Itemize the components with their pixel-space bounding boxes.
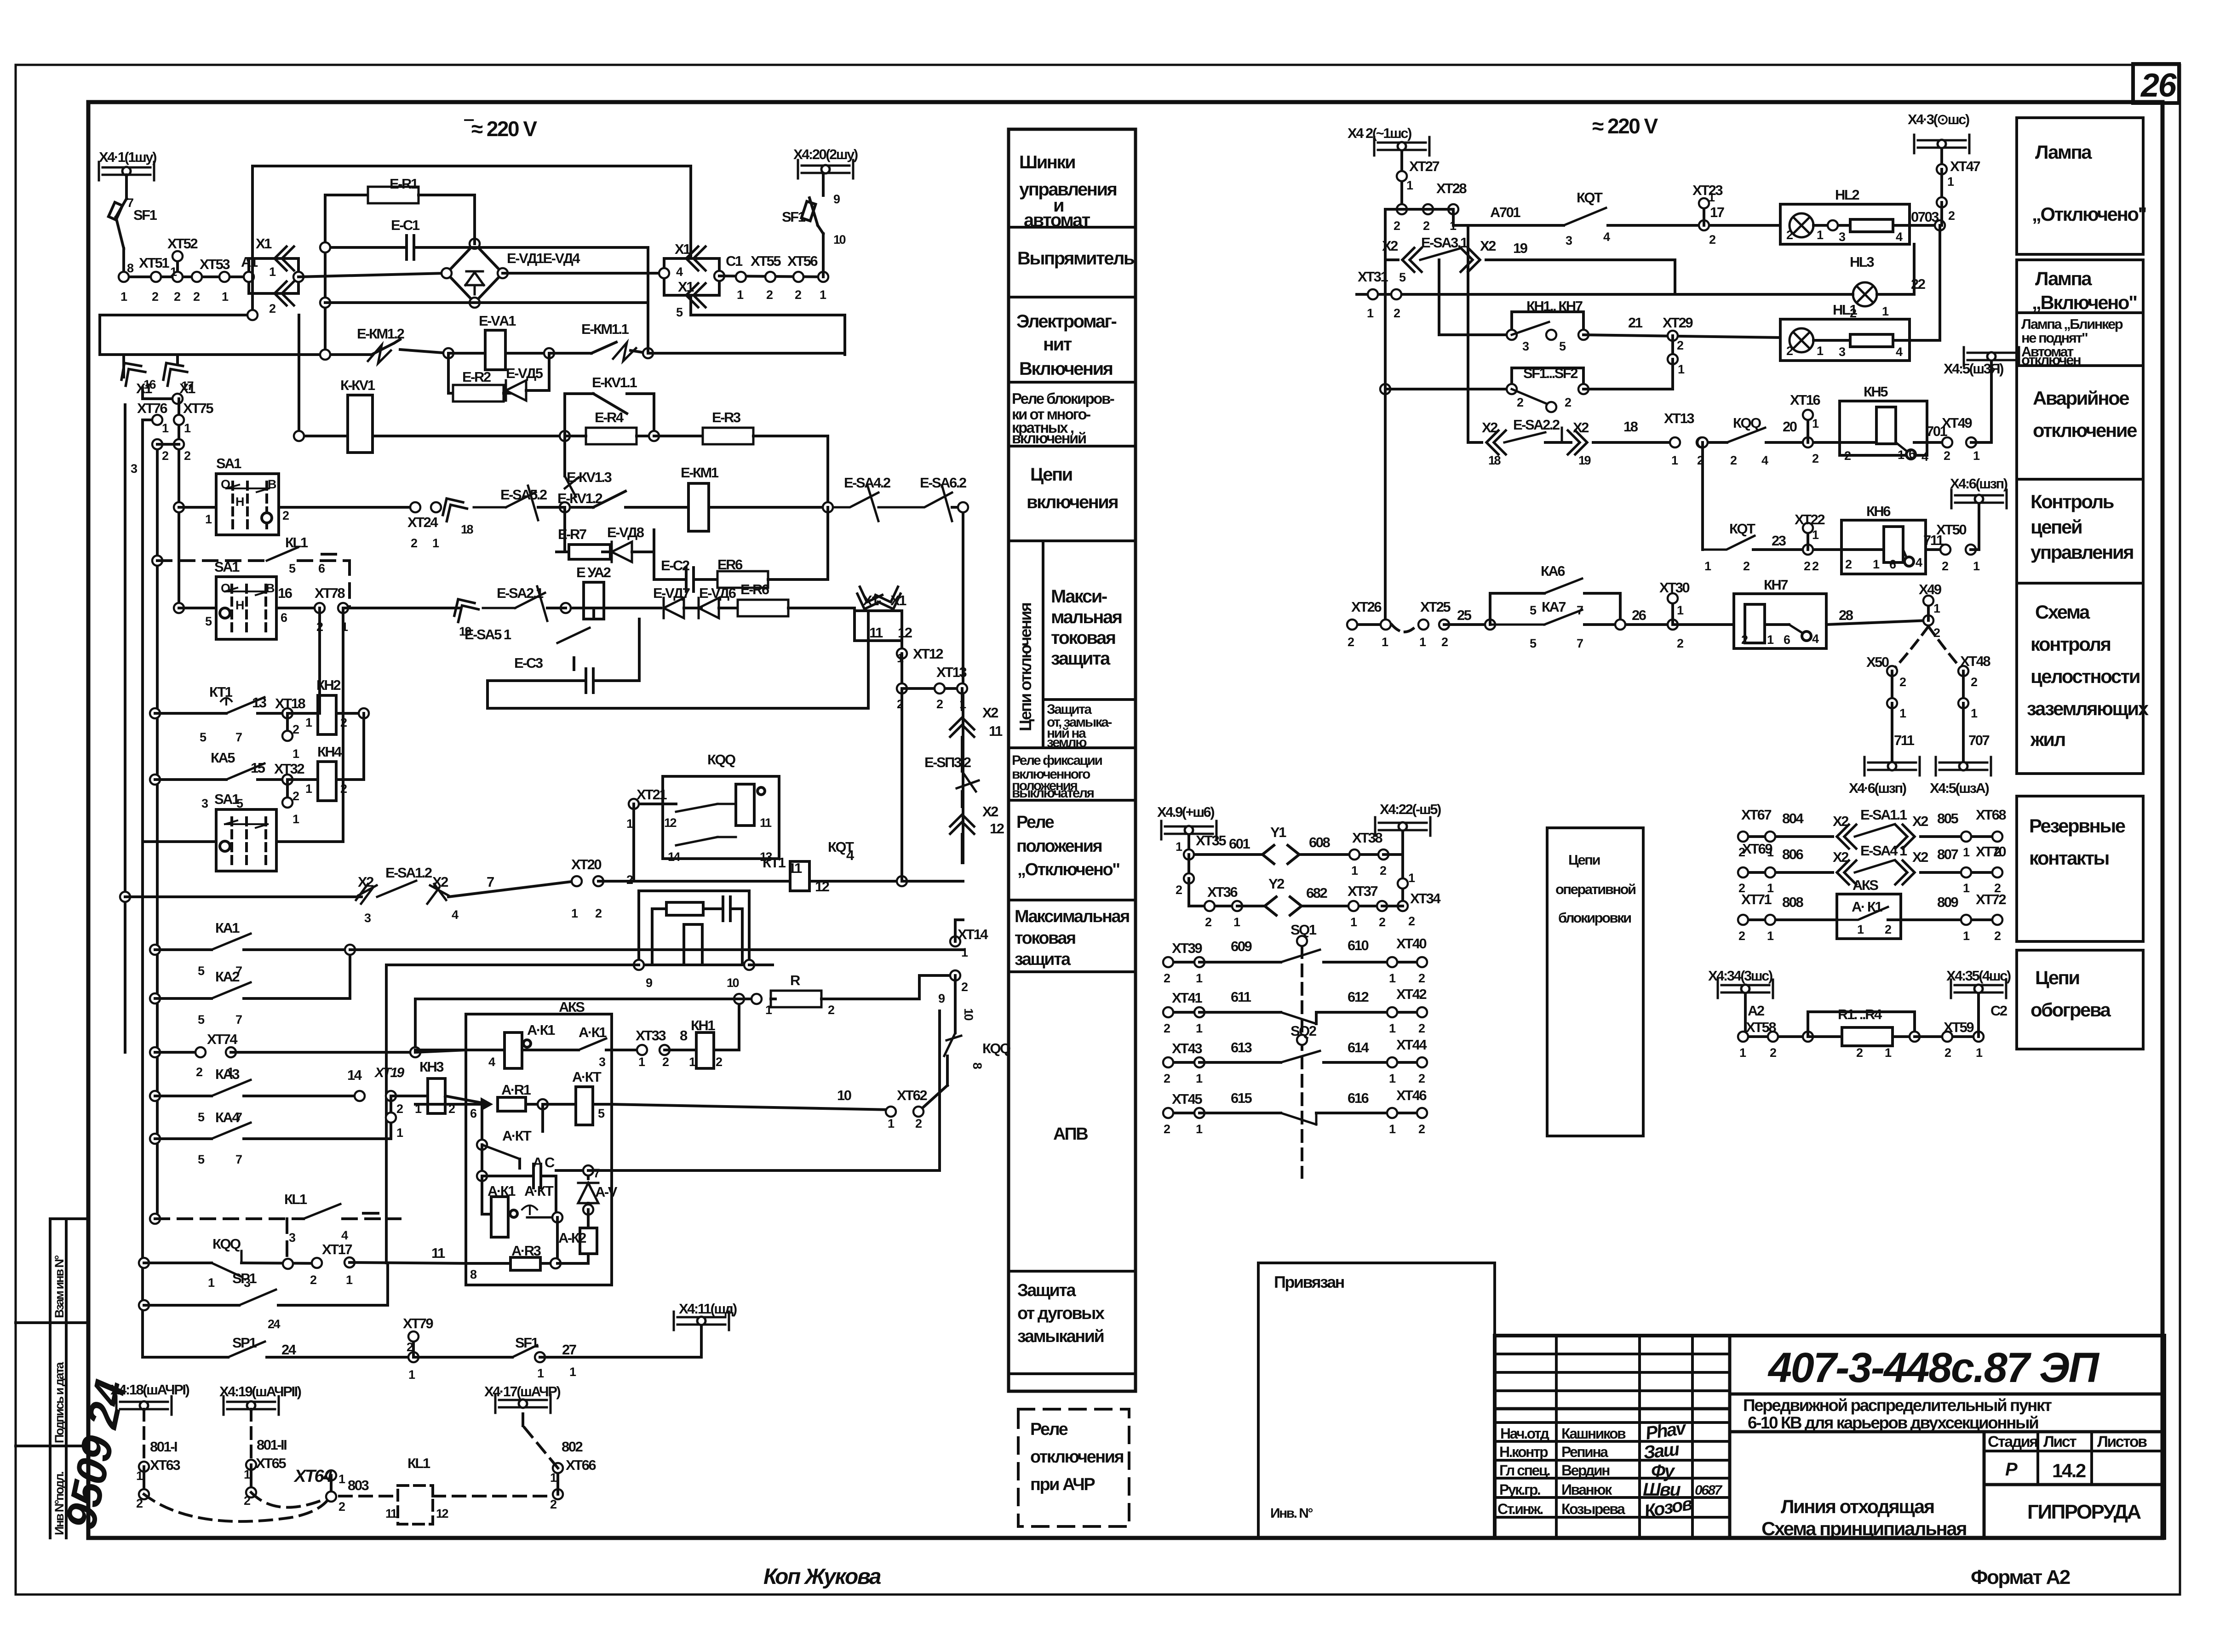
svg-text:ХТ72: ХТ72 xyxy=(1976,891,2006,907)
connector X1 pin 16 xyxy=(115,356,145,385)
svg-text:E-R3: E-R3 xyxy=(712,409,741,425)
svg-text:2: 2 xyxy=(1709,233,1715,247)
svg-text:Шинки: Шинки xyxy=(1019,152,1075,172)
KQT KH6 row y=1195 xyxy=(1701,442,1704,550)
svg-text:611: 611 xyxy=(1231,989,1251,1005)
svg-text:614: 614 xyxy=(1348,1039,1369,1055)
wire rail to X1 xyxy=(124,275,249,278)
svg-text:ХТ76: ХТ76 xyxy=(137,400,167,416)
node XT52 xyxy=(176,258,179,277)
svg-text:А·КТ: А·КТ xyxy=(572,1069,602,1085)
svg-text:Х49: Х49 xyxy=(1919,581,1942,597)
svg-text:2: 2 xyxy=(795,288,801,302)
svg-text:Формат А2: Формат А2 xyxy=(1971,1566,2070,1589)
relay KH6 box (wire 711) xyxy=(1841,520,1926,574)
svg-text:КQQ: КQQ xyxy=(1733,415,1761,431)
svg-text:ХТ56: ХТ56 xyxy=(787,253,818,269)
SP1 SF1 XT79 row xyxy=(143,1356,228,1359)
connector X4:5(sh3Ya) xyxy=(1964,347,2019,366)
svg-text:17: 17 xyxy=(1710,204,1724,220)
contact KT1 xyxy=(221,698,232,705)
bridge rectifier E-VD1..E-VD4 xyxy=(447,244,503,303)
svg-text:контакты: контакты xyxy=(2029,847,2109,869)
terminal XT48 (wire 707) xyxy=(1958,666,1968,676)
svg-text:‾≈ 220 V: ‾≈ 220 V xyxy=(464,117,537,141)
svg-text:Максимальная: Максимальная xyxy=(1015,907,1129,926)
svg-text:E-SА6.2: E-SА6.2 xyxy=(920,475,966,491)
A-K1 #2 coil + A-KT clock contact xyxy=(481,1176,483,1214)
svg-text:19: 19 xyxy=(459,625,472,638)
dashed to X50 / XT48 xyxy=(1892,626,1928,671)
svg-text:В: В xyxy=(266,581,275,595)
ladder labels xyxy=(110,380,855,1493)
svg-text:2: 2 xyxy=(407,1340,413,1354)
signature grid xyxy=(1495,1353,1730,1355)
breaker SF1 (right) xyxy=(822,234,825,277)
svg-text:жил: жил xyxy=(2030,728,2065,750)
resistor E-R7 + diode E-VD8 xyxy=(556,551,569,553)
contact A-KT xyxy=(482,1145,520,1159)
svg-text:Х50: Х50 xyxy=(1866,654,1889,670)
svg-text:„Отключено": „Отключено" xyxy=(1017,860,1119,879)
svg-text:2: 2 xyxy=(550,1497,556,1511)
contacts SF1...SF2 xyxy=(1512,389,1549,405)
svg-text:2: 2 xyxy=(1741,633,1748,647)
connector X4:6(shzp) lower xyxy=(1864,757,1920,775)
svg-text:ХТ40: ХТ40 xyxy=(1396,935,1426,952)
resistor R xyxy=(771,991,821,1007)
relay coil A-KT xyxy=(576,1087,593,1125)
resistor E-R4 xyxy=(586,428,637,444)
svg-text:ЕR6: ЕR6 xyxy=(717,556,743,573)
wire xyxy=(122,248,125,277)
relay coil KH2 xyxy=(318,695,336,734)
svg-text:ХТ67: ХТ67 xyxy=(1741,807,1771,823)
svg-text:7: 7 xyxy=(1577,603,1583,617)
terminal XT23 (wire 17) xyxy=(1699,220,1709,230)
svg-text:610: 610 xyxy=(1348,937,1368,953)
bottom dashed connectors xyxy=(116,1396,172,1467)
svg-text:ХТ68: ХТ68 xyxy=(1976,807,2006,823)
wire lower rectifier output xyxy=(325,301,447,304)
svg-text:Х4:19(шАЧРII): Х4:19(шАЧРII) xyxy=(219,1383,301,1400)
svg-text:Реле фиксации: Реле фиксации xyxy=(1012,753,1102,768)
svg-text:HL3: HL3 xyxy=(1850,254,1874,270)
svg-text:11: 11 xyxy=(788,860,802,876)
svg-text:2: 2 xyxy=(1394,219,1400,233)
svg-text:7: 7 xyxy=(593,1166,600,1180)
svg-text:21: 21 xyxy=(1628,315,1643,331)
svg-text:А2: А2 xyxy=(1748,1003,1764,1019)
svg-text:КТ1: КТ1 xyxy=(209,684,233,700)
contact KQQ (wire 9/8) xyxy=(944,1033,961,1056)
svg-text:2: 2 xyxy=(1565,396,1571,409)
terminal XT22 xyxy=(1803,545,1813,555)
svg-text:Н.контр: Н.контр xyxy=(1499,1444,1548,1460)
A-KT contact branch xyxy=(481,1104,483,1145)
relay KH5 box (wire 701) xyxy=(1840,401,1927,455)
svg-text:2: 2 xyxy=(396,1102,403,1116)
svg-text:2: 2 xyxy=(1994,881,2001,895)
svg-text:Х2: Х2 xyxy=(1573,419,1589,436)
contact E-SA3.2 xyxy=(957,771,979,792)
svg-text:801-II: 801-II xyxy=(257,1437,287,1453)
svg-text:ХТ36: ХТ36 xyxy=(1207,884,1238,900)
svg-text:С2: С2 xyxy=(1990,1003,2007,1019)
terminal XT25 (wire 25) xyxy=(1418,619,1428,630)
svg-text:„Отключено": „Отключено" xyxy=(2032,203,2146,225)
svg-text:КА7: КА7 xyxy=(1542,599,1566,615)
svg-text:заземляющих: заземляющих xyxy=(2027,698,2149,719)
svg-text:24: 24 xyxy=(281,1342,297,1358)
svg-text:автомат: автомат xyxy=(1024,210,1090,230)
svg-text:E-R2: E-R2 xyxy=(462,369,491,385)
contact E-KV1.2 xyxy=(565,506,593,509)
svg-text:ХТ34: ХТ34 xyxy=(1410,890,1441,906)
svg-text:14.2: 14.2 xyxy=(2052,1460,2086,1481)
svg-text:Ст.инж.: Ст.инж. xyxy=(1497,1501,1543,1517)
svg-text:ХТ20: ХТ20 xyxy=(571,856,601,872)
diodes E-VD7 E-VD6 + resistor E-R6 xyxy=(664,598,684,618)
svg-text:Листов: Листов xyxy=(2097,1433,2147,1451)
svg-text:26: 26 xyxy=(1632,607,1646,623)
A-C cap row xyxy=(482,1175,524,1177)
svg-text:804: 804 xyxy=(1782,810,1804,826)
svg-text:2: 2 xyxy=(193,290,200,304)
svg-text:АКS: АКS xyxy=(559,999,585,1015)
svg-text:А· К1: А· К1 xyxy=(1852,899,1882,915)
terminal XT44 (wire 614) xyxy=(1387,1057,1397,1067)
svg-text:13: 13 xyxy=(760,850,773,864)
svg-text:2: 2 xyxy=(1379,915,1385,929)
svg-text:ГИПРОРУДА: ГИПРОРУДА xyxy=(2027,1501,2141,1523)
svg-text:17: 17 xyxy=(181,379,194,393)
svg-text:ХТ24: ХТ24 xyxy=(407,514,438,530)
svg-text:11: 11 xyxy=(869,625,883,641)
interlock circuits box xyxy=(1547,828,1643,1136)
SA1 #1 xyxy=(174,502,184,512)
KA3 KH3 row xyxy=(150,1091,160,1101)
svg-text:801-I: 801-I xyxy=(150,1439,177,1455)
capacitor E-C2 + resistor ER6 xyxy=(654,578,674,581)
connector X4:18(shAChRI) xyxy=(116,1396,172,1415)
svg-text:Резервные: Резервные xyxy=(2029,815,2125,837)
svg-text:18: 18 xyxy=(1623,419,1638,435)
svg-text:24: 24 xyxy=(268,1317,281,1331)
relay coil E-KM1 xyxy=(688,483,709,531)
contact SP1 (row 1) xyxy=(239,1290,276,1305)
terminal XT26 xyxy=(1347,619,1357,630)
svg-text:включений: включений xyxy=(1012,430,1086,447)
svg-text:E-С2: E-С2 xyxy=(661,557,689,574)
svg-text:2: 2 xyxy=(828,1003,834,1017)
svg-text:2: 2 xyxy=(196,1065,202,1079)
svg-text:ХТ41: ХТ41 xyxy=(1172,990,1202,1006)
terminal XT24 xyxy=(410,502,420,512)
svg-text:609: 609 xyxy=(1231,938,1252,954)
svg-text:2: 2 xyxy=(595,906,602,920)
svg-text:11: 11 xyxy=(760,816,772,830)
svg-text:2: 2 xyxy=(1971,675,1977,689)
heater resistors R1...R4 xyxy=(1842,1027,1893,1046)
A-K1 coil + contact row y=2283 xyxy=(415,1049,505,1051)
node X50 (wire 711) xyxy=(1887,666,1897,676)
svg-text:2: 2 xyxy=(1885,923,1891,936)
terminal XT30 xyxy=(1668,619,1678,630)
svg-text:ХТ32: ХТ32 xyxy=(274,761,304,777)
svg-text:7: 7 xyxy=(235,964,242,978)
svg-text:КА6: КА6 xyxy=(1541,563,1565,579)
svg-text:Коп Жукова: Коп Жукова xyxy=(763,1565,881,1589)
svg-text:Цепи: Цепи xyxy=(1030,465,1072,485)
svg-text:E-КМ1.2: E-КМ1.2 xyxy=(357,326,404,342)
svg-text:АПВ: АПВ xyxy=(1053,1124,1088,1144)
svg-text:Е-SА2.1: Е-SА2.1 xyxy=(497,585,544,601)
svg-text:2: 2 xyxy=(1164,1122,1170,1136)
terminal XT36 (wire 682) xyxy=(1205,901,1215,911)
connector X4.9(+sh6) xyxy=(1161,821,1216,839)
connector X4:17(shAChR) xyxy=(495,1394,551,1413)
svg-text:806: 806 xyxy=(1782,846,1803,862)
svg-text:Лист: Лист xyxy=(2043,1433,2076,1451)
connector X2 pin 11 xyxy=(950,717,974,737)
svg-text:Х2: Х2 xyxy=(358,874,373,890)
svg-text:2: 2 xyxy=(1948,209,1955,223)
svg-text:2: 2 xyxy=(282,509,289,522)
svg-text:SF1...SF2: SF1...SF2 xyxy=(1523,365,1577,381)
svg-text:ХТ59: ХТ59 xyxy=(1944,1019,1974,1035)
resistor E-R1 xyxy=(325,194,368,196)
svg-text:27: 27 xyxy=(562,1342,576,1358)
terminal XT38 xyxy=(1349,849,1359,860)
electromagnet Y2 xyxy=(1265,897,1302,915)
relay coil KH4 xyxy=(318,762,336,801)
svg-text:16: 16 xyxy=(278,585,293,601)
resistor E-R2 + diode E-VD5 xyxy=(447,353,450,393)
terminal XT27 xyxy=(1397,171,1407,181)
terminal XT43 (wire 613) xyxy=(1163,1057,1173,1067)
svg-text:А·КТ: А·КТ xyxy=(524,1183,554,1199)
svg-text:КL1: КL1 xyxy=(284,1191,307,1207)
bus wire left xyxy=(141,420,144,1357)
contact KA7 (wire 26) xyxy=(1490,610,1582,625)
left sidebar boxes xyxy=(50,1217,88,1220)
svg-text:2: 2 xyxy=(244,1494,250,1508)
svg-text:А1: А1 xyxy=(241,254,258,270)
svg-text:2: 2 xyxy=(1844,449,1851,463)
KH1..KH7 row xyxy=(1439,333,1512,336)
svg-text:ХТ66: ХТ66 xyxy=(566,1457,596,1473)
svg-text:Н: Н xyxy=(235,495,244,509)
svg-text:2: 2 xyxy=(1845,557,1852,571)
svg-text:E-VД6: E-VД6 xyxy=(699,585,736,601)
svg-text:ХТ45: ХТ45 xyxy=(1172,1091,1202,1107)
svg-text:Х2: Х2 xyxy=(1912,849,1928,865)
svg-text:Е-SА1.1: Е-SА1.1 xyxy=(1860,807,1907,823)
terminal XT79 xyxy=(408,1352,419,1362)
svg-text:Стадия: Стадия xyxy=(1988,1433,2037,1451)
svg-text:2: 2 xyxy=(1812,559,1818,573)
svg-text:Х2: Х2 xyxy=(1480,238,1496,254)
terminals XT76 XT75 xyxy=(143,419,157,421)
HL3 row xyxy=(1357,293,1853,296)
svg-text:SА1: SА1 xyxy=(216,455,241,471)
svg-text:SQ2: SQ2 xyxy=(1291,1023,1316,1039)
svg-text:Р: Р xyxy=(2005,1459,2018,1480)
svg-text:Х2: Х2 xyxy=(432,874,448,890)
svg-text:ХТ78: ХТ78 xyxy=(315,585,345,601)
svg-text:ХТ18: ХТ18 xyxy=(275,695,305,711)
svg-text:Х4·6(шзп): Х4·6(шзп) xyxy=(1849,780,1906,796)
svg-text:802: 802 xyxy=(562,1439,582,1455)
svg-text:2: 2 xyxy=(411,536,417,550)
svg-text:О: О xyxy=(221,477,230,491)
sheet number box 26 xyxy=(2133,64,2179,103)
terminal XT31 xyxy=(1368,289,1378,299)
svg-text:2: 2 xyxy=(961,980,968,994)
svg-text:Иванюк: Иванюк xyxy=(1561,1481,1612,1498)
svg-text:ХТ17: ХТ17 xyxy=(322,1241,352,1257)
svg-text:ХТ19: ХТ19 xyxy=(374,1065,405,1080)
svg-text:2: 2 xyxy=(1418,1021,1425,1035)
contact A-KT (timed) xyxy=(522,1205,537,1214)
svg-text:20: 20 xyxy=(1783,419,1797,435)
terminal XT62 (wire 10) xyxy=(886,1107,896,1117)
privyazan box xyxy=(1258,1263,1495,1538)
svg-text:А·R1: А·R1 xyxy=(501,1082,531,1098)
E-VD7 E-VD6 E-R6 row xyxy=(566,607,661,609)
svg-text:выключателя: выключателя xyxy=(1012,786,1094,801)
svg-text:12: 12 xyxy=(664,816,677,830)
contact E-KM1.1 xyxy=(549,352,591,355)
svg-text:Кашников: Кашников xyxy=(1561,1425,1626,1442)
KA2 row xyxy=(150,993,160,1004)
terminal XT39 (wire 609) xyxy=(1163,957,1173,967)
capacitor E-C3 xyxy=(574,669,605,693)
svg-text:ХТ12: ХТ12 xyxy=(913,646,943,662)
svg-text:2: 2 xyxy=(716,1055,722,1069)
wire xyxy=(503,272,664,275)
svg-text:2: 2 xyxy=(1856,1046,1863,1060)
terminal XT72 xyxy=(1961,915,1971,925)
svg-text:Лампа: Лампа xyxy=(2035,268,2092,289)
contact A-K1 xyxy=(579,1038,606,1050)
svg-text:SF1: SF1 xyxy=(133,207,157,223)
svg-text:14: 14 xyxy=(347,1067,362,1083)
svg-text:682: 682 xyxy=(1306,885,1327,901)
svg-text:мальная: мальная xyxy=(1051,607,1122,627)
svg-text:Х2: Х2 xyxy=(1382,238,1398,254)
svg-text:Реле: Реле xyxy=(1030,1420,1068,1439)
contact E-SA3.1 with X2 connectors (wire 19) xyxy=(1402,248,1422,272)
svg-text:612: 612 xyxy=(1348,989,1368,1005)
svg-text:805: 805 xyxy=(1937,810,1958,826)
svg-text:808: 808 xyxy=(1782,894,1803,910)
svg-text:Х4:18(шАЧРI): Х4:18(шАЧРI) xyxy=(110,1382,189,1398)
svg-text:„Включено": „Включено" xyxy=(2032,292,2137,313)
svg-text:ХТ21: ХТ21 xyxy=(637,786,667,803)
svg-text:10: 10 xyxy=(837,1087,851,1103)
svg-text:Макси-: Макси- xyxy=(1051,586,1107,607)
svg-text:2: 2 xyxy=(1164,1072,1170,1085)
svg-text:10: 10 xyxy=(962,1008,975,1021)
lamp HL3 (wire 22) xyxy=(1853,282,1877,306)
A-R3 row xyxy=(466,1262,510,1265)
svg-text:целостности: целостности xyxy=(2030,665,2139,687)
svg-text:токовая: токовая xyxy=(1015,929,1075,948)
svg-text:Х4·17(шАЧР): Х4·17(шАЧР) xyxy=(484,1383,560,1400)
svg-text:Н: Н xyxy=(235,598,244,612)
contact KL1 (second dashed row) xyxy=(304,1204,340,1219)
svg-text:Схема: Схема xyxy=(2035,601,2090,623)
svg-text:E-R6: E-R6 xyxy=(740,581,769,597)
contact KA5 xyxy=(226,763,264,780)
svg-text:2: 2 xyxy=(1899,675,1906,689)
svg-text:землю: землю xyxy=(1047,735,1087,750)
XT74 row xyxy=(150,1047,160,1057)
connector X4:5(shzA) lower xyxy=(1936,757,1991,775)
contact KQT (wire 23) xyxy=(1702,536,1755,550)
svg-text:R1. ..R4: R1. ..R4 xyxy=(1838,1006,1882,1022)
svg-text:А-V: А-V xyxy=(595,1184,618,1200)
svg-text:Контроль: Контроль xyxy=(2030,491,2114,512)
svg-text:ХТ14: ХТ14 xyxy=(958,926,988,942)
terminal XT35 (wire 601) xyxy=(1184,849,1194,860)
connector X4:22(-sh5) xyxy=(1375,817,1430,836)
contact SF1 (wire 27) xyxy=(512,1345,537,1357)
svg-text:E-VА1: E-VА1 xyxy=(479,313,516,329)
contact KA1 xyxy=(212,934,251,950)
connector X1 pins 1/2 xyxy=(249,258,298,293)
svg-text:Е-SА5.2: Е-SА5.2 xyxy=(500,487,547,503)
switch SQ1 (wire 610) xyxy=(1281,950,1320,962)
contact KA3 xyxy=(212,1080,251,1096)
svg-text:ХТ51: ХТ51 xyxy=(139,255,169,271)
svg-text:711: 711 xyxy=(1894,732,1915,748)
svg-text:Х2: Х2 xyxy=(1482,419,1497,436)
svg-text:Х4·1(1шу): Х4·1(1шу) xyxy=(99,149,156,165)
svg-text:ХТ70: ХТ70 xyxy=(1976,843,2006,860)
svg-text:управления: управления xyxy=(2030,541,2133,563)
svg-text:Гл спец.: Гл спец. xyxy=(1499,1462,1550,1479)
relay coil KQT (KT1 11-12) xyxy=(790,861,809,891)
contact E-KM1.2 xyxy=(100,353,372,356)
svg-text:Вердин: Вердин xyxy=(1561,1462,1610,1479)
terminal XT67 (wire 804) xyxy=(1738,832,1748,842)
svg-text:2: 2 xyxy=(1423,219,1429,233)
svg-text:803: 803 xyxy=(348,1477,369,1493)
svg-text:7: 7 xyxy=(127,196,133,210)
svg-text:2: 2 xyxy=(1677,637,1683,650)
svg-text:2: 2 xyxy=(1408,914,1415,928)
svg-text:7: 7 xyxy=(235,1110,242,1124)
svg-text:11: 11 xyxy=(431,1245,445,1261)
svg-text:ХТ65: ХТ65 xyxy=(256,1455,286,1471)
svg-text:ХТ39: ХТ39 xyxy=(1172,940,1202,956)
terminal XT16 xyxy=(1803,437,1813,447)
contact KQQ xyxy=(212,1251,241,1277)
svg-text:2: 2 xyxy=(340,782,347,796)
svg-text:Лампа: Лампа xyxy=(2035,141,2092,163)
top bus wire xyxy=(252,165,690,167)
svg-text:10: 10 xyxy=(833,233,846,247)
terminal XT18 xyxy=(282,708,293,718)
svg-text:12: 12 xyxy=(436,1507,448,1520)
right part xyxy=(1730,1393,2164,1396)
terminal XT63 (wire 801-I) xyxy=(139,1462,149,1472)
svg-text:Линия отходящая: Линия отходящая xyxy=(1781,1496,1934,1517)
terminal XT40 xyxy=(1387,957,1397,967)
